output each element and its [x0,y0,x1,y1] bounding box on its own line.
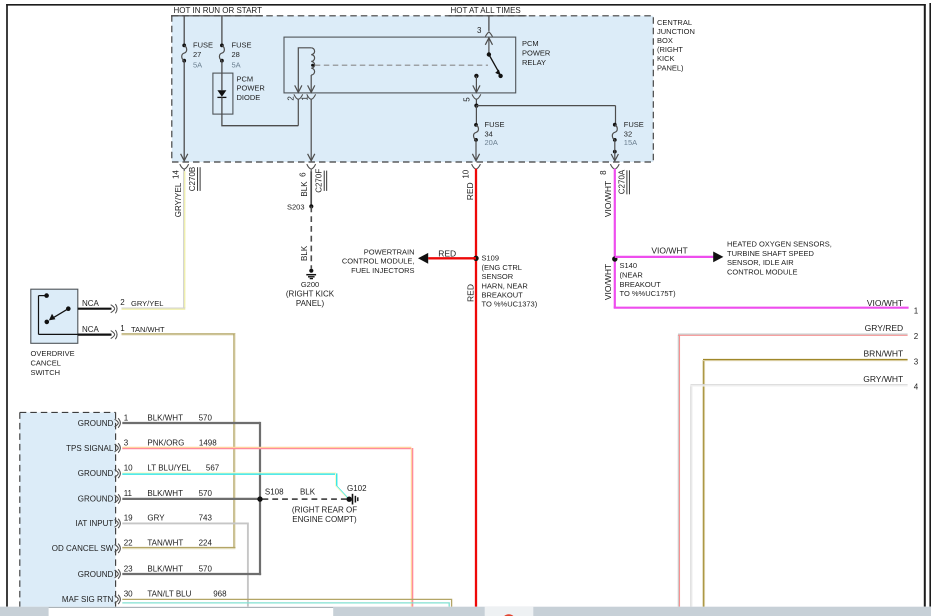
taskbar [0,607,931,616]
svg-text:FUSE: FUSE [485,120,505,129]
wire RED vertical pin 10 to bottom [475,169,477,607]
svg-text:BLK: BLK [300,245,309,261]
relay pin label 2 [287,96,296,101]
pin 30 connector [115,595,121,604]
svg-text:570: 570 [199,489,213,498]
svg-text:5A: 5A [193,61,202,70]
relay pin 2 arrow [295,85,302,92]
svg-text:224: 224 [199,539,213,548]
diode D1 symbol [217,73,226,114]
relay coil [298,48,314,93]
svg-text:(RIGHT REAR OF: (RIGHT REAR OF [292,506,357,515]
label G102 [347,484,367,493]
svg-text:743: 743 [199,514,213,523]
svg-text:1: 1 [124,413,129,422]
svg-text:HARN, NEAR: HARN, NEAR [482,281,529,290]
svg-text:G200: G200 [301,280,319,289]
wire GRY/WHT vertical [691,385,692,606]
svg-text:POWER: POWER [522,49,551,58]
svg-text:23: 23 [124,564,133,573]
svg-text:1: 1 [120,324,125,333]
pin 30 labels [124,590,227,599]
connector label C270F [315,169,327,193]
svg-text:FUSE: FUSE [232,40,252,49]
svg-text:DIODE: DIODE [237,93,261,102]
label VIO/WHT right [867,298,903,308]
svg-text:6: 6 [299,172,308,177]
splice S203 [287,202,313,211]
pin number 2 right edge [914,332,919,341]
svg-text:PNK/ORG: PNK/ORG [147,438,184,447]
pin number 3 right edge [914,357,919,366]
label (RIGHT REAR OF ENGINE COMPT) [292,506,357,524]
label PCM POWER RELAY [522,39,551,67]
svg-text:SWITCH: SWITCH [31,368,61,377]
label GRY/YEL rotated [174,182,183,217]
svg-text:TAN/LT BLU: TAN/LT BLU [147,590,191,599]
svg-text:BLK: BLK [300,181,309,197]
wire pin5 node to fuse 32 [476,106,615,125]
label PCM POWER DIODE [237,74,266,102]
PCM power diode box [213,73,233,114]
svg-text:GRY: GRY [147,514,165,523]
svg-text:1: 1 [914,306,919,315]
switch NCA pin 1 lead [78,325,112,335]
svg-text:2: 2 [120,298,125,307]
wire TAN/LT BLU row 30 tan line [122,599,451,606]
svg-text:GROUND: GROUND [78,469,114,478]
svg-text:S109: S109 [482,254,500,263]
wire fuse 27 to pin 14 [181,61,188,161]
svg-text:10: 10 [462,169,471,178]
svg-text:TO %%UC1373): TO %%UC1373) [482,300,538,309]
taskbar light section [485,607,534,616]
label HOT AT ALL TIMES [449,6,527,16]
svg-text:15A: 15A [624,138,637,147]
wire TAN/WHT to OD CANCEL SW pin 22 [122,548,235,549]
wire TAN/WHT horizontal from switch [122,334,236,335]
splice S108 [257,487,284,502]
connector label C270B [188,167,200,191]
pin 23 connector [115,569,121,578]
pin 19 connector [115,519,121,528]
switch internal contacts [39,293,78,334]
svg-text:(RIGHT KICK: (RIGHT KICK [286,290,335,299]
switch NCA pin 2 lead [78,299,112,309]
pin number 1 right edge [914,306,919,315]
svg-text:RED: RED [438,248,456,258]
wire TAN/WHT vertical [234,334,235,548]
svg-text:GRY/WHT: GRY/WHT [863,374,903,384]
fuse F28 5A [219,44,224,63]
pin 8 connector C270A [610,164,619,169]
svg-text:S108: S108 [265,487,284,496]
wire BLK dashed S108 to G102 [263,498,348,500]
relay pin label 1 [301,96,310,101]
PCM power relay box U1 [284,37,516,93]
svg-text:PCM: PCM [522,39,539,48]
svg-text:C270B: C270B [188,167,197,191]
wire TAN/LT BLU row 30 light blue line [122,603,449,607]
pin label 6 [299,172,308,177]
label POWERTRAIN CONTROL MODULE FUEL INJECTORS [342,247,415,275]
svg-text:BREAKOUT: BREAKOUT [620,280,662,289]
label RED on branch [438,248,456,258]
PCM connector box (dashed, light blue) [20,412,116,606]
svg-text:BLK: BLK [300,487,316,496]
svg-text:C270A: C270A [617,169,626,194]
svg-text:TURBINE SHAFT SPEED: TURBINE SHAFT SPEED [727,249,815,258]
splice S109 [473,256,478,261]
svg-text:1: 1 [301,96,310,101]
svg-text:BLK/WHT: BLK/WHT [147,564,183,573]
wire LT BLU/YEL row 10 to G102 [122,473,347,498]
pin 3 connector [115,443,121,452]
svg-text:CONTROL MODULE: CONTROL MODULE [727,268,798,277]
row pin 23 BLK/WHT - label GROUND [78,570,114,579]
wire BLK/WHT row 1 to splice vertical [122,422,261,575]
svg-text:BLK/WHT: BLK/WHT [147,413,183,422]
svg-text:3: 3 [124,438,129,447]
wire GRY/RED horizontal [678,334,908,335]
svg-text:G102: G102 [347,484,367,493]
relay switch contacts [473,37,503,93]
svg-text:FUSE: FUSE [193,40,213,49]
svg-text:HOT IN RUN OR START: HOT IN RUN OR START [174,6,263,15]
svg-text:10: 10 [124,464,133,473]
label RED rotated lower [465,284,475,302]
wire VIO/WHT vertical pin 8 to corner [614,169,616,308]
svg-text:FUSE: FUSE [624,120,644,129]
svg-text:30: 30 [124,590,133,599]
row pin 11 BLK/WHT - label GROUND [78,495,114,504]
svg-text:KICK: KICK [657,54,675,63]
wire BLK dashed S203 to G200 [310,206,312,268]
svg-text:MAF SIG RTN: MAF SIG RTN [62,595,114,604]
pin 10 labels [124,464,220,473]
svg-text:BRN/WHT: BRN/WHT [864,349,904,359]
label BLK on dashed wire [300,487,316,496]
svg-text:TO %%UC175T): TO %%UC175T) [620,289,677,298]
pin 11 labels [124,489,213,498]
pin 11 connector [115,494,121,503]
label S109 (ENG CTRL SENSOR HARN, NEAR BREAKOUT TO %%UC1373) [482,254,538,309]
row pin 1 BLK/WHT - label GROUND [78,419,114,428]
junction node below pin 5 [474,104,478,108]
fuse F34 20A [474,123,479,142]
svg-text:20A: 20A [485,138,498,147]
central junction box (dashed, light blue) [172,16,654,162]
wire fuse 28 to diode [221,61,223,73]
label GRY/WHT [863,374,903,384]
svg-text:2: 2 [914,332,919,341]
wire BLK/WHT row 23 to splice vertical [122,573,261,575]
svg-text:5A: 5A [232,61,241,70]
connector label C270A [617,169,629,194]
svg-text:CONTROL MODULE,: CONTROL MODULE, [342,257,415,266]
wire VIO/WHT horizontal to right edge [614,307,909,309]
svg-text:NCA: NCA [82,299,100,308]
label BRN/WHT [864,349,904,359]
svg-text:IAT INPUT: IAT INPUT [75,519,113,528]
svg-text:POWER: POWER [237,84,266,93]
svg-text:RED: RED [465,182,475,200]
svg-text:BREAKOUT: BREAKOUT [482,291,524,300]
svg-text:2: 2 [287,96,296,101]
wire fuse 32 to pin 8 [611,140,618,161]
pin 1 labels [124,413,213,422]
pin label 10 [462,169,471,178]
wire VIO/WHT branch to sensors [615,256,714,258]
fuse 27 value labels [193,40,213,69]
wire GRY row 19 [122,523,248,607]
pin 14 connector C270B [180,164,189,171]
wire BLK/WHT row 11 to splice S108 [122,498,260,500]
wire BRN/WHT vertical [703,360,704,607]
svg-text:TPS SIGNAL: TPS SIGNAL [66,444,114,453]
svg-text:OVERDRIVE: OVERDRIVE [31,349,75,358]
wire PNK/ORG row 3 [122,447,412,606]
svg-text:GRY/YEL: GRY/YEL [131,299,163,308]
svg-text:RED: RED [465,284,475,302]
svg-text:28: 28 [232,50,240,59]
pin 10 connector [472,164,481,169]
pin 1 label and TAN/WHT [120,324,165,334]
row pin 22 TAN/WHT - label OD CANCEL SW [52,544,114,553]
node dot below fuse 32 [613,150,617,154]
label HOT IN RUN OR START [171,6,263,16]
pin 3 inline connector [485,31,492,37]
svg-text:GROUND: GROUND [78,495,114,504]
svg-text:S203: S203 [287,202,305,211]
wire GRY/YEL horizontal to switch pin 2 [122,308,186,309]
wire GRY/RED vertical [678,335,679,607]
relay pin 1 arrow [308,85,315,92]
svg-text:22: 22 [124,539,133,548]
row pin 19 GRY - label IAT INPUT [75,519,113,528]
fuse 28 value labels [232,40,252,69]
pin 6 connector C270F [307,164,316,171]
svg-text:GROUND: GROUND [78,419,114,428]
pin label 14 [172,170,181,179]
pin label 3 [477,26,482,35]
wire fuse 34 to pin 10 [472,140,479,161]
svg-text:BOX: BOX [657,36,673,45]
pin 1 connector [115,418,121,427]
splice S140 [612,256,617,261]
svg-text:1498: 1498 [199,438,217,447]
svg-text:VIO/WHT: VIO/WHT [867,298,903,308]
arrow to heated oxygen sensors [713,252,723,263]
svg-text:NCA: NCA [82,325,100,334]
fuse 32 value labels [624,120,644,147]
svg-text:19: 19 [124,514,133,523]
pin 1 inline connector [111,330,117,339]
svg-text:HEATED OXYGEN SENSORS,: HEATED OXYGEN SENSORS, [727,239,832,248]
svg-text:PANEL): PANEL) [657,63,684,72]
svg-text:PANEL): PANEL) [296,299,325,308]
svg-text:14: 14 [172,170,181,179]
svg-text:TAN/WHT: TAN/WHT [131,325,165,334]
label HEATED OXYGEN SENSORS TURBINE SHAFT SPEED SENSOR IDLE AIR CONTROL MODULE [727,239,832,276]
svg-text:GRY/YEL: GRY/YEL [174,182,183,217]
svg-text:VIO/WHT: VIO/WHT [651,245,687,255]
taskbar red app icon [502,614,516,616]
wire from hot bus to fuse 28 [221,16,223,45]
svg-text:GRY/RED: GRY/RED [865,323,904,333]
svg-text:JUNCTION: JUNCTION [657,27,695,36]
svg-text:567: 567 [206,464,220,473]
svg-text:3: 3 [914,357,919,366]
svg-text:8: 8 [599,170,608,175]
label VIO/WHT on branch [651,245,687,255]
svg-text:(ENG CTRL: (ENG CTRL [482,263,522,272]
relay pin 2 connector [294,94,303,125]
svg-text:PCM: PCM [237,74,254,83]
wire GRY/WHT horizontal [691,385,908,386]
taskbar white window [49,607,334,616]
svg-text:3: 3 [477,26,482,35]
svg-text:570: 570 [199,413,213,422]
fuse 34 value labels [485,120,505,147]
pin 22 connector [115,544,121,553]
svg-text:C270F: C270F [315,169,324,193]
overdrive cancel switch box SW1 [31,289,78,343]
relay pin 1 connector [307,94,316,161]
pin 10 connector [115,469,121,478]
svg-text:LT BLU/YEL: LT BLU/YEL [147,464,191,473]
label CENTRAL JUNCTION BOX (RIGHT KICK PANEL) [657,18,695,73]
wire GRY/YEL vertical [184,171,185,308]
row pin 10 LT BLU/YEL - label GROUND [78,469,114,478]
row pin 30 TAN/LT BLU - label MAF SIG RTN [62,595,114,604]
label BLK rotated upper [300,181,309,197]
svg-text:GROUND: GROUND [78,570,114,579]
label RED rotated upper [465,182,475,200]
svg-text:CENTRAL: CENTRAL [657,18,692,27]
svg-text:968: 968 [213,590,227,599]
svg-text:SENSOR, IDLE AIR: SENSOR, IDLE AIR [727,258,794,267]
wire from hot bus to fuse 27 [183,16,185,45]
svg-text:4: 4 [914,383,919,392]
svg-text:S140: S140 [620,261,638,270]
svg-text:CANCEL: CANCEL [31,359,61,368]
svg-text:FUEL INJECTORS: FUEL INJECTORS [351,266,414,275]
svg-text:HOT AT ALL TIMES: HOT AT ALL TIMES [451,6,521,15]
svg-text:570: 570 [199,564,213,573]
svg-text:OD CANCEL SW: OD CANCEL SW [52,544,114,553]
arrow to powertrain control module [418,253,428,264]
right edge second border [929,3,931,607]
wire diode to relay pin 2 [222,114,298,126]
pin 2 inline connector [111,304,117,313]
wire BLK pin 6 to S203 [310,171,312,206]
svg-text:(RIGHT: (RIGHT [657,45,683,54]
pin 19 labels [124,514,213,523]
svg-text:VIO/WHT: VIO/WHT [603,181,613,217]
svg-text:(NEAR: (NEAR [620,270,644,279]
label VIO/WHT rotated upper [603,181,613,217]
svg-text:BLK/WHT: BLK/WHT [147,489,183,498]
pin 22 labels [124,539,213,548]
label BLK rotated lower [300,245,309,261]
fuse F32 15A [612,123,617,142]
svg-text:ENGINE COMPT): ENGINE COMPT) [292,515,357,524]
pin 3 labels [124,438,218,447]
fuse F27 5A [182,44,187,63]
pin 2 label and GRY/YEL [120,298,163,308]
svg-text:11: 11 [124,489,133,498]
label OVERDRIVE CANCEL SWITCH [31,349,75,377]
relay pin label 5 [463,97,472,102]
svg-text:VIO/WHT: VIO/WHT [603,264,613,300]
wire BRN/WHT horizontal [703,359,908,360]
pin label 8 [599,170,608,175]
svg-text:27: 27 [193,50,201,59]
wire hot at all times to relay pin 3 [488,16,490,31]
pin 23 labels [124,564,213,573]
row pin 3 PNK/ORG - label TPS SIGNAL [66,444,114,453]
ground G102 [347,494,358,505]
svg-text:SENSOR: SENSOR [482,272,514,281]
svg-text:POWERTRAIN: POWERTRAIN [364,247,415,256]
relay actuation dashed link [311,64,488,67]
svg-text:5: 5 [463,97,472,102]
label GRY/RED [865,323,904,333]
wire RED branch to PCM arrow [428,257,476,259]
svg-text:RELAY: RELAY [522,58,546,67]
label VIO/WHT rotated lower [603,264,613,300]
relay pin 5 connector [472,94,481,105]
svg-text:TAN/WHT: TAN/WHT [147,539,183,548]
ground G200 [306,269,316,279]
label S140 (NEAR BREAKOUT TO %%UC175T) [620,261,677,298]
wire node to fuse 34 [475,106,477,125]
label G200 (RIGHT KICK PANEL) [286,280,335,308]
pin number 4 right edge [914,383,919,392]
